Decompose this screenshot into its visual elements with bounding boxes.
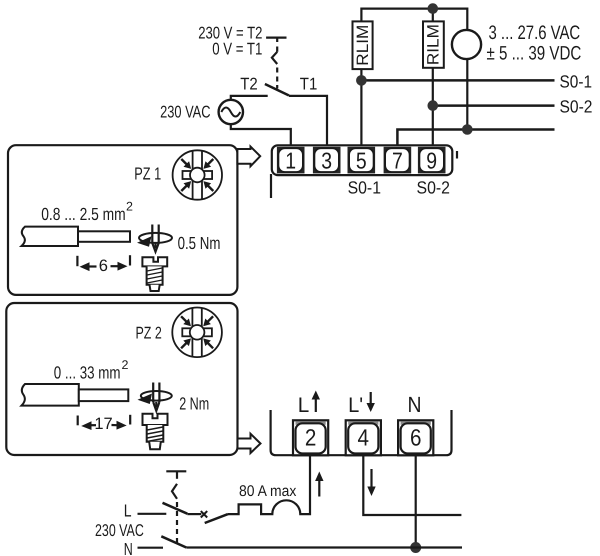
device edge below strip (270, 174, 272, 198)
PZ1 info box (8, 145, 237, 295)
svg-text:0 V = T1: 0 V = T1 (212, 40, 262, 59)
wire T1 to terminal 3 (289, 96, 327, 147)
svg-text:0 ... 33 mm: 0 ... 33 mm (54, 362, 121, 382)
svg-text:S0-2: S0-2 (417, 178, 451, 198)
svg-text:0.8 ... 2.5 mm: 0.8 ... 2.5 mm (41, 204, 126, 224)
terminal 6 (398, 420, 433, 455)
svg-text:17: 17 (94, 415, 112, 433)
switch arm L (163, 503, 188, 514)
junction top bus (428, 3, 439, 14)
resistor RLIM (353, 21, 373, 69)
wire RILM to terminal 9 (432, 68, 434, 147)
manual actuator symbol bottom (166, 471, 186, 542)
terminal 5 (348, 147, 376, 174)
svg-text:L: L (124, 500, 132, 520)
switch arm N (161, 536, 186, 547)
svg-text:7: 7 (392, 147, 403, 173)
conductor PZ2 (79, 389, 129, 401)
direction arrow down near terminal 4 (367, 469, 375, 496)
terminal 4 (346, 420, 381, 455)
terminal 9 (418, 147, 446, 174)
svg-text:1: 1 (285, 147, 296, 173)
wire terminal 6 N (415, 455, 417, 547)
svg-text:S0-1: S0-1 (348, 178, 381, 198)
svg-text:S0-1: S0-1 (560, 71, 593, 91)
svg-text:L': L' (348, 394, 363, 417)
svg-text:N: N (124, 539, 133, 556)
conductor PZ1 (78, 231, 130, 242)
svg-text:RILM: RILM (425, 24, 443, 65)
svg-text:3 ... 27.6 VAC: 3 ... 27.6 VAC (489, 22, 581, 44)
arrow up after L (312, 391, 320, 413)
net line to terminal 7 (397, 130, 554, 147)
wire terminal 4 L' out (363, 455, 461, 515)
net S0-1 line (361, 79, 554, 82)
svg-text:6: 6 (410, 425, 422, 451)
notch right of strip (456, 151, 458, 159)
breaker arm (205, 514, 228, 523)
svg-text:L: L (298, 394, 310, 417)
svg-text:4: 4 (358, 425, 370, 451)
resistor RILM (423, 21, 444, 67)
svg-text:2: 2 (122, 358, 129, 372)
svg-text:2: 2 (305, 425, 317, 451)
top terminal strip (272, 145, 453, 175)
switch arm T2/T1 (265, 84, 289, 96)
wire N from label (138, 547, 164, 549)
svg-text:9: 9 (426, 147, 437, 173)
wire RLIM to terminal 5 (360, 69, 362, 146)
wire to breaker contact (187, 513, 201, 515)
direction arrow up near terminal 2 (315, 472, 323, 497)
wire source top to T2 contact (231, 96, 268, 100)
dimension 6 (77, 255, 130, 275)
cable PZ1 (22, 227, 79, 246)
svg-text:RLIM: RLIM (354, 25, 372, 66)
terminal 3 (313, 147, 341, 174)
junction N (410, 542, 421, 553)
arrow down after L' (367, 392, 375, 412)
pozidriv icon PZ2 (172, 308, 222, 358)
svg-text:2: 2 (126, 200, 133, 214)
net N line (186, 546, 462, 548)
screwdriver PZ2 (138, 383, 172, 411)
svg-text:N: N (408, 392, 422, 417)
PZ2 info box (6, 303, 237, 455)
breaker fixed contact x (201, 511, 207, 517)
block arrow PZ1 to strip (237, 147, 260, 167)
terminal 1 (277, 147, 305, 174)
junction S0-1 (356, 75, 367, 86)
top bus wire (361, 9, 467, 30)
screwdriver PZ1 (137, 225, 172, 252)
svg-text:80 A max: 80 A max (239, 483, 297, 500)
wire source bottom to terminal 1 (231, 124, 291, 146)
source 230 VAC circle (219, 100, 243, 124)
screw PZ1 (142, 257, 167, 291)
junction S0-2 (428, 100, 439, 111)
svg-text:S0-2: S0-2 (560, 96, 593, 116)
cable PZ2 (22, 384, 79, 406)
svg-text:T1: T1 (300, 75, 318, 94)
pozidriv icon PZ1 (173, 150, 222, 199)
net S0-2 line (433, 104, 555, 107)
block arrow PZ2 to bottom strip (238, 434, 261, 453)
svg-text:230 VAC: 230 VAC (160, 103, 210, 122)
svg-text:± 5 ... 39 VDC: ± 5 ... 39 VDC (487, 43, 582, 65)
supply circle (452, 30, 481, 59)
svg-text:6: 6 (99, 257, 108, 275)
terminal 2 (293, 420, 328, 455)
svg-text:230 VAC: 230 VAC (95, 521, 144, 540)
dimension 17 (78, 415, 131, 433)
svg-text:T2: T2 (240, 75, 258, 94)
svg-text:0.5 Nm: 0.5 Nm (178, 233, 221, 253)
bottom terminal tray (271, 410, 452, 455)
wire RILM to top bus (432, 9, 434, 22)
terminal 7 (384, 147, 412, 174)
svg-text:PZ 2: PZ 2 (136, 324, 162, 343)
fuse 80A bumps and wire to terminal 2 (228, 455, 310, 514)
voltage selector actuator symbol top (266, 38, 286, 89)
svg-text:2 Nm: 2 Nm (179, 394, 209, 414)
svg-text:5: 5 (356, 147, 367, 173)
wire supply circle down (466, 59, 468, 129)
screw PZ2 (143, 414, 168, 450)
svg-text:PZ 1: PZ 1 (134, 164, 161, 184)
wire L (138, 513, 167, 515)
junction supply line (462, 124, 473, 135)
svg-text:3: 3 (321, 147, 332, 173)
